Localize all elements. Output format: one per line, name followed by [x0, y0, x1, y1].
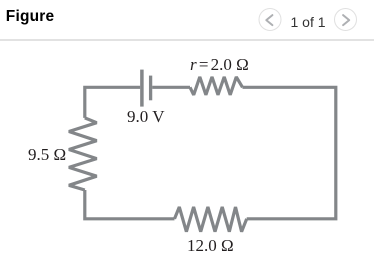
next button: [335, 9, 357, 31]
pager navigation: [258, 8, 374, 31]
label: r = 2.0 ohm: [190, 55, 249, 75]
label: 12.0 ohm: [187, 236, 234, 256]
resistor 12.0 ohm (bottom zigzag): [175, 207, 247, 232]
resistor r = 2.0 ohm (top zigzag): [190, 77, 243, 95]
resistor 9.5 ohm (left side zigzag): [69, 118, 97, 190]
wire: battery positive plate to top-left corner and down left side: [85, 87, 140, 118]
prev button: [259, 9, 281, 31]
label: 9.0 V: [127, 107, 164, 127]
pager text "1 of 1": [284, 14, 332, 30]
battery B1 positive plate (long): [140, 70, 144, 107]
battery B1 negative plate (short): [149, 76, 152, 101]
wire: left side below resistor, bottom-left corner, to 12-ohm resistor: [85, 190, 175, 219]
title "Figure": [6, 8, 55, 26]
label: 9.5 ohm: [28, 145, 66, 165]
header divider: [0, 39, 374, 41]
wire: 12-ohm resistor to bottom-right corner, up right side, to internal resistance r: [243, 87, 336, 219]
wire: internal resistance r to battery negative plate: [152, 86, 190, 89]
